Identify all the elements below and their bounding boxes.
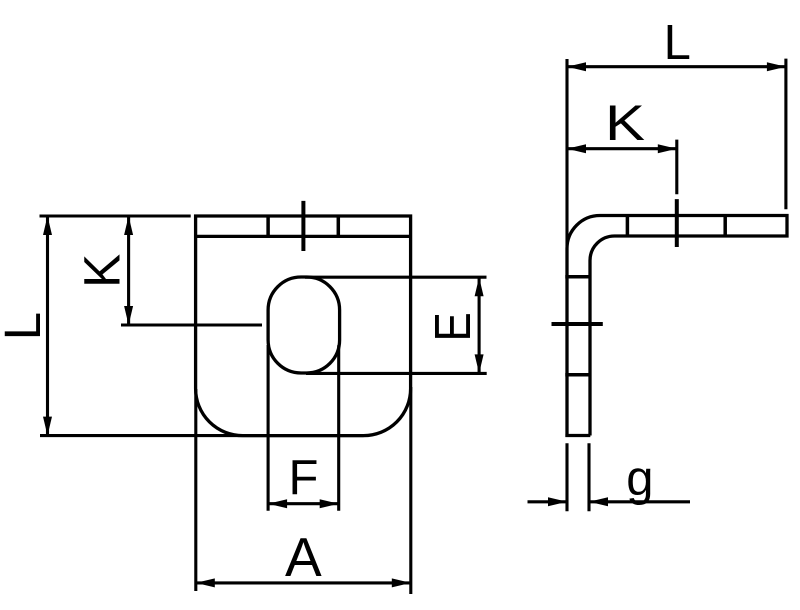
svg-text:K: K: [74, 254, 131, 288]
svg-text:A: A: [285, 526, 322, 588]
svg-text:g: g: [626, 452, 653, 506]
svg-text:F: F: [289, 451, 319, 505]
svg-text:L: L: [664, 16, 691, 70]
svg-text:K: K: [605, 95, 645, 151]
svg-text:E: E: [425, 312, 482, 341]
svg-text:L: L: [0, 312, 51, 340]
